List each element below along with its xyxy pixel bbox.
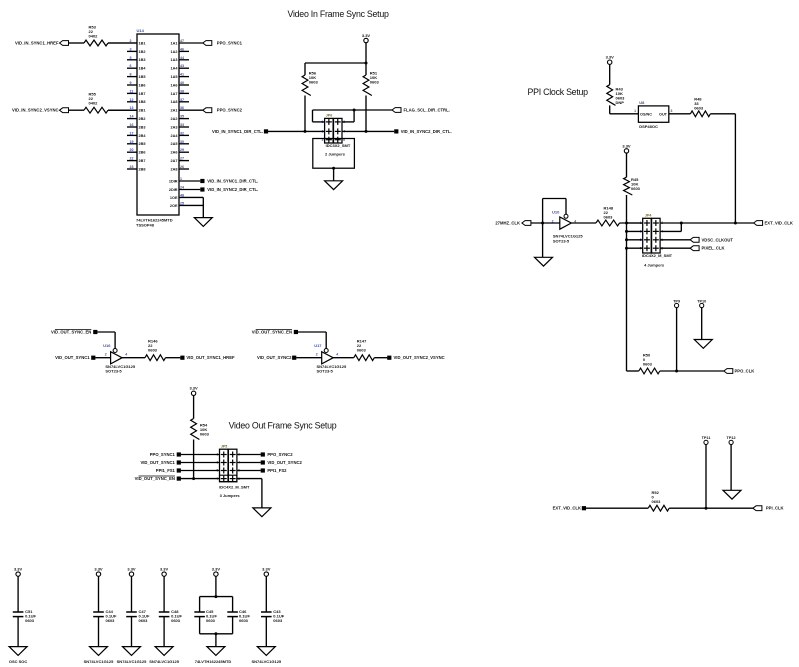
svg-text:VID_OUT_SYNC2_VSYNC: VID_OUT_SYNC2_VSYNC	[394, 355, 445, 360]
svg-text:SN74LVC1G125: SN74LVC1G125	[117, 659, 147, 664]
svg-text:2B1: 2B1	[139, 109, 146, 113]
svg-text:PPI1_FS2: PPI1_FS2	[267, 468, 287, 473]
svg-text:IDC3X2_SMT: IDC3X2_SMT	[326, 143, 351, 148]
svg-text:3.3V: 3.3V	[127, 567, 136, 572]
svg-text:TP11: TP11	[702, 436, 711, 440]
svg-text:8: 8	[130, 73, 132, 77]
svg-text:EXT_VID_CLK: EXT_VID_CLK	[553, 506, 581, 511]
svg-text:33: 33	[180, 123, 184, 127]
svg-text:41: 41	[180, 73, 184, 77]
svg-text:DNP: DNP	[616, 100, 625, 105]
svg-text:U14: U14	[137, 28, 145, 33]
svg-text:SOT23-5: SOT23-5	[317, 369, 334, 374]
svg-text:2OE: 2OE	[170, 204, 178, 208]
svg-text:VID_OUT_SYNC2: VID_OUT_SYNC2	[257, 355, 292, 360]
svg-text:4 Jumpers: 4 Jumpers	[644, 262, 665, 267]
svg-text:4: 4	[125, 353, 127, 357]
svg-text:IDC4X2_M_SMT: IDC4X2_M_SMT	[642, 253, 673, 258]
svg-text:0603: 0603	[357, 348, 367, 353]
svg-text:3: 3	[130, 47, 132, 51]
svg-text:DSP48OC: DSP48OC	[639, 124, 658, 129]
svg-text:3.3V: 3.3V	[262, 567, 271, 572]
svg-text:0603: 0603	[273, 618, 283, 623]
svg-text:22: 22	[130, 157, 134, 161]
svg-text:1B5: 1B5	[139, 75, 146, 79]
svg-text:1B1: 1B1	[139, 41, 146, 45]
svg-text:2B6: 2B6	[139, 151, 146, 155]
svg-text:2A6: 2A6	[171, 151, 178, 155]
svg-text:OSC SOC: OSC SOC	[9, 659, 28, 664]
svg-text:PPI Clock Setup: PPI Clock Setup	[528, 87, 589, 97]
svg-text:14: 14	[130, 115, 134, 119]
svg-text:VID_IN_SYNC2_DIR_CTL.: VID_IN_SYNC2_DIR_CTL.	[401, 129, 452, 134]
svg-text:IDC4X2_M_SMT: IDC4X2_M_SMT	[219, 485, 250, 490]
svg-text:3.3V: 3.3V	[160, 567, 169, 572]
svg-text:0603: 0603	[309, 80, 319, 85]
svg-text:VID_OUT_SYNC1: VID_OUT_SYNC1	[55, 355, 90, 360]
svg-text:TP10: TP10	[697, 299, 706, 303]
svg-text:0603: 0603	[652, 499, 662, 504]
svg-text:PPO_SYNC2: PPO_SYNC2	[267, 452, 293, 457]
svg-text:20: 20	[130, 148, 134, 152]
svg-text:PPO_SYNC1: PPO_SYNC1	[150, 452, 176, 457]
svg-text:3.3V: 3.3V	[362, 33, 371, 38]
svg-text:2DIR: 2DIR	[169, 188, 178, 192]
svg-text:37: 37	[180, 98, 184, 102]
svg-text:PPI_CLK: PPI_CLK	[766, 506, 784, 511]
svg-text:U17: U17	[314, 343, 322, 348]
svg-text:2A8: 2A8	[171, 167, 178, 171]
svg-text:3 Jumpers: 3 Jumpers	[220, 493, 241, 498]
svg-text:SN74LVC1G125: SN74LVC1G125	[251, 659, 281, 664]
svg-text:3.3V: 3.3V	[606, 55, 615, 60]
svg-text:1A8: 1A8	[171, 100, 178, 104]
svg-text:1B6: 1B6	[139, 83, 146, 87]
svg-text:TSSOP48: TSSOP48	[136, 223, 155, 228]
svg-text:2A7: 2A7	[171, 159, 178, 163]
svg-text:VID_OUT_SYNC1: VID_OUT_SYNC1	[140, 460, 175, 465]
svg-text:VID_OUT_SYNC1_HREF: VID_OUT_SYNC1_HREF	[186, 355, 235, 360]
svg-text:3: 3	[671, 109, 673, 113]
svg-text:0402: 0402	[89, 101, 99, 106]
svg-text:0603: 0603	[25, 618, 35, 623]
svg-text:TP9: TP9	[673, 299, 680, 303]
svg-text:VID_IN_SYNC1_HREF: VID_IN_SYNC1_HREF	[15, 41, 59, 46]
svg-text:0603: 0603	[148, 348, 158, 353]
svg-text:SN74LVC1G125: SN74LVC1G125	[149, 659, 179, 664]
svg-text:26: 26	[180, 165, 184, 169]
svg-text:2: 2	[316, 353, 318, 357]
svg-text:3.3V: 3.3V	[14, 567, 23, 572]
svg-text:0402: 0402	[89, 34, 99, 39]
svg-text:0603: 0603	[171, 618, 181, 623]
svg-text:PPO_SYNC1: PPO_SYNC1	[217, 41, 243, 46]
svg-text:1B4: 1B4	[139, 67, 147, 71]
svg-text:32: 32	[180, 131, 184, 135]
svg-text:1B8: 1B8	[139, 100, 146, 104]
svg-text:2 Jumpers: 2 Jumpers	[325, 151, 346, 156]
svg-text:5: 5	[130, 56, 132, 60]
svg-text:1A6: 1A6	[171, 83, 178, 87]
svg-text:FLAG_SCL_DIR_CTRL.: FLAG_SCL_DIR_CTRL.	[404, 108, 450, 113]
svg-text:9: 9	[130, 81, 132, 85]
svg-text:1B2: 1B2	[139, 50, 146, 54]
svg-text:2A3: 2A3	[171, 125, 178, 129]
svg-text:3.3V: 3.3V	[94, 567, 103, 572]
svg-text:Video Out Frame Sync Setup: Video Out Frame Sync Setup	[229, 421, 337, 431]
svg-text:VID_IN_SYNC2_DIR_CTL.: VID_IN_SYNC2_DIR_CTL.	[207, 187, 258, 192]
svg-text:3.3V: 3.3V	[212, 567, 221, 572]
svg-text:3.3V: 3.3V	[189, 386, 198, 391]
svg-text:2B7: 2B7	[139, 159, 146, 163]
svg-text:6: 6	[130, 64, 132, 68]
svg-text:U10: U10	[552, 210, 560, 215]
svg-text:2B3: 2B3	[139, 125, 146, 129]
svg-text:46: 46	[180, 47, 184, 51]
svg-text:VID_OUT_SYNC_EN: VID_OUT_SYNC_EN	[51, 330, 91, 335]
svg-text:11: 11	[130, 89, 134, 93]
svg-text:1A1: 1A1	[171, 41, 178, 45]
svg-text:1A3: 1A3	[171, 58, 178, 62]
svg-text:38: 38	[180, 89, 184, 93]
svg-text:JP5: JP5	[221, 444, 227, 448]
svg-text:SOT23-5: SOT23-5	[553, 239, 570, 244]
svg-text:35: 35	[180, 115, 184, 119]
svg-text:SOT23-5: SOT23-5	[105, 369, 122, 374]
svg-text:VID_OUT_SYNC_EN: VID_OUT_SYNC_EN	[135, 476, 175, 481]
svg-text:19: 19	[130, 140, 134, 144]
svg-text:0603: 0603	[206, 618, 216, 623]
svg-text:0603: 0603	[370, 80, 380, 85]
svg-text:U16: U16	[103, 343, 111, 348]
svg-text:27MHZ_CLK: 27MHZ_CLK	[495, 221, 520, 226]
svg-text:OUT: OUT	[659, 112, 668, 116]
svg-text:2B5: 2B5	[139, 142, 146, 146]
svg-text:30: 30	[180, 140, 184, 144]
svg-text:47: 47	[180, 39, 184, 43]
svg-text:OS/NC: OS/NC	[640, 112, 652, 116]
svg-text:VID_OUT_SYNC2: VID_OUT_SYNC2	[267, 460, 302, 465]
svg-text:29: 29	[180, 148, 184, 152]
svg-text:3.3V: 3.3V	[622, 143, 631, 148]
svg-text:PIXEL_CLK: PIXEL_CLK	[702, 246, 725, 251]
svg-text:12: 12	[130, 98, 134, 102]
svg-text:2A2: 2A2	[171, 117, 178, 121]
svg-text:74LVTH162245MTD: 74LVTH162245MTD	[195, 659, 232, 664]
svg-text:1B3: 1B3	[139, 58, 146, 62]
svg-text:27: 27	[180, 157, 184, 161]
svg-text:0603: 0603	[139, 618, 149, 623]
svg-text:43: 43	[180, 64, 184, 68]
svg-text:1DIR: 1DIR	[169, 179, 178, 183]
svg-text:Video In Frame Sync Setup: Video In Frame Sync Setup	[288, 9, 390, 19]
svg-text:0603: 0603	[106, 618, 116, 623]
svg-text:VDSC_CLKOUT: VDSC_CLKOUT	[702, 237, 734, 242]
svg-text:4: 4	[336, 353, 338, 357]
svg-text:2B8: 2B8	[139, 167, 146, 171]
svg-text:2B2: 2B2	[139, 117, 146, 121]
svg-text:JP4: JP4	[645, 213, 651, 217]
svg-text:36: 36	[180, 106, 184, 110]
svg-text:U8: U8	[639, 100, 645, 105]
svg-text:VID_IN_SYNC1_DIR_CTL.: VID_IN_SYNC1_DIR_CTL.	[207, 179, 258, 184]
svg-text:1A4: 1A4	[171, 67, 179, 71]
svg-text:1A7: 1A7	[171, 92, 178, 96]
svg-text:2A5: 2A5	[171, 142, 178, 146]
svg-text:0603: 0603	[239, 618, 249, 623]
svg-text:16: 16	[130, 123, 134, 127]
svg-text:0603: 0603	[631, 186, 641, 191]
svg-text:1A5: 1A5	[171, 75, 178, 79]
svg-text:2: 2	[105, 353, 107, 357]
svg-text:44: 44	[180, 56, 184, 60]
svg-text:1: 1	[634, 109, 636, 113]
svg-text:0603: 0603	[604, 215, 614, 220]
svg-text:40: 40	[180, 81, 184, 85]
svg-text:VID_OUT_SYNC_EN: VID_OUT_SYNC_EN	[252, 330, 292, 335]
svg-text:VID_IN_SYNC1_DIR_CTL.: VID_IN_SYNC1_DIR_CTL.	[212, 129, 263, 134]
svg-text:VID_IN_SYNC2_VSYNC: VID_IN_SYNC2_VSYNC	[12, 108, 59, 113]
svg-text:TP12: TP12	[727, 436, 736, 440]
svg-text:JP6: JP6	[326, 113, 332, 117]
svg-text:PPO_CLK: PPO_CLK	[735, 369, 755, 374]
svg-text:1B7: 1B7	[139, 92, 146, 96]
svg-text:1A2: 1A2	[171, 50, 178, 54]
svg-text:EXT_VID_CLK: EXT_VID_CLK	[765, 221, 793, 226]
svg-text:23: 23	[130, 165, 134, 169]
svg-text:1OE: 1OE	[170, 196, 178, 200]
svg-text:2A4: 2A4	[171, 134, 179, 138]
svg-text:0603: 0603	[694, 106, 704, 111]
svg-text:0603: 0603	[200, 432, 210, 437]
svg-text:17: 17	[130, 131, 134, 135]
svg-text:2B4: 2B4	[139, 134, 147, 138]
svg-text:SN74LVC1G125: SN74LVC1G125	[84, 659, 114, 664]
svg-text:2A1: 2A1	[171, 109, 178, 113]
svg-text:2: 2	[552, 219, 554, 223]
svg-text:PPO_SYNC2: PPO_SYNC2	[217, 108, 243, 113]
svg-text:PPI1_FS1: PPI1_FS1	[156, 468, 176, 473]
svg-text:0603: 0603	[643, 362, 653, 367]
